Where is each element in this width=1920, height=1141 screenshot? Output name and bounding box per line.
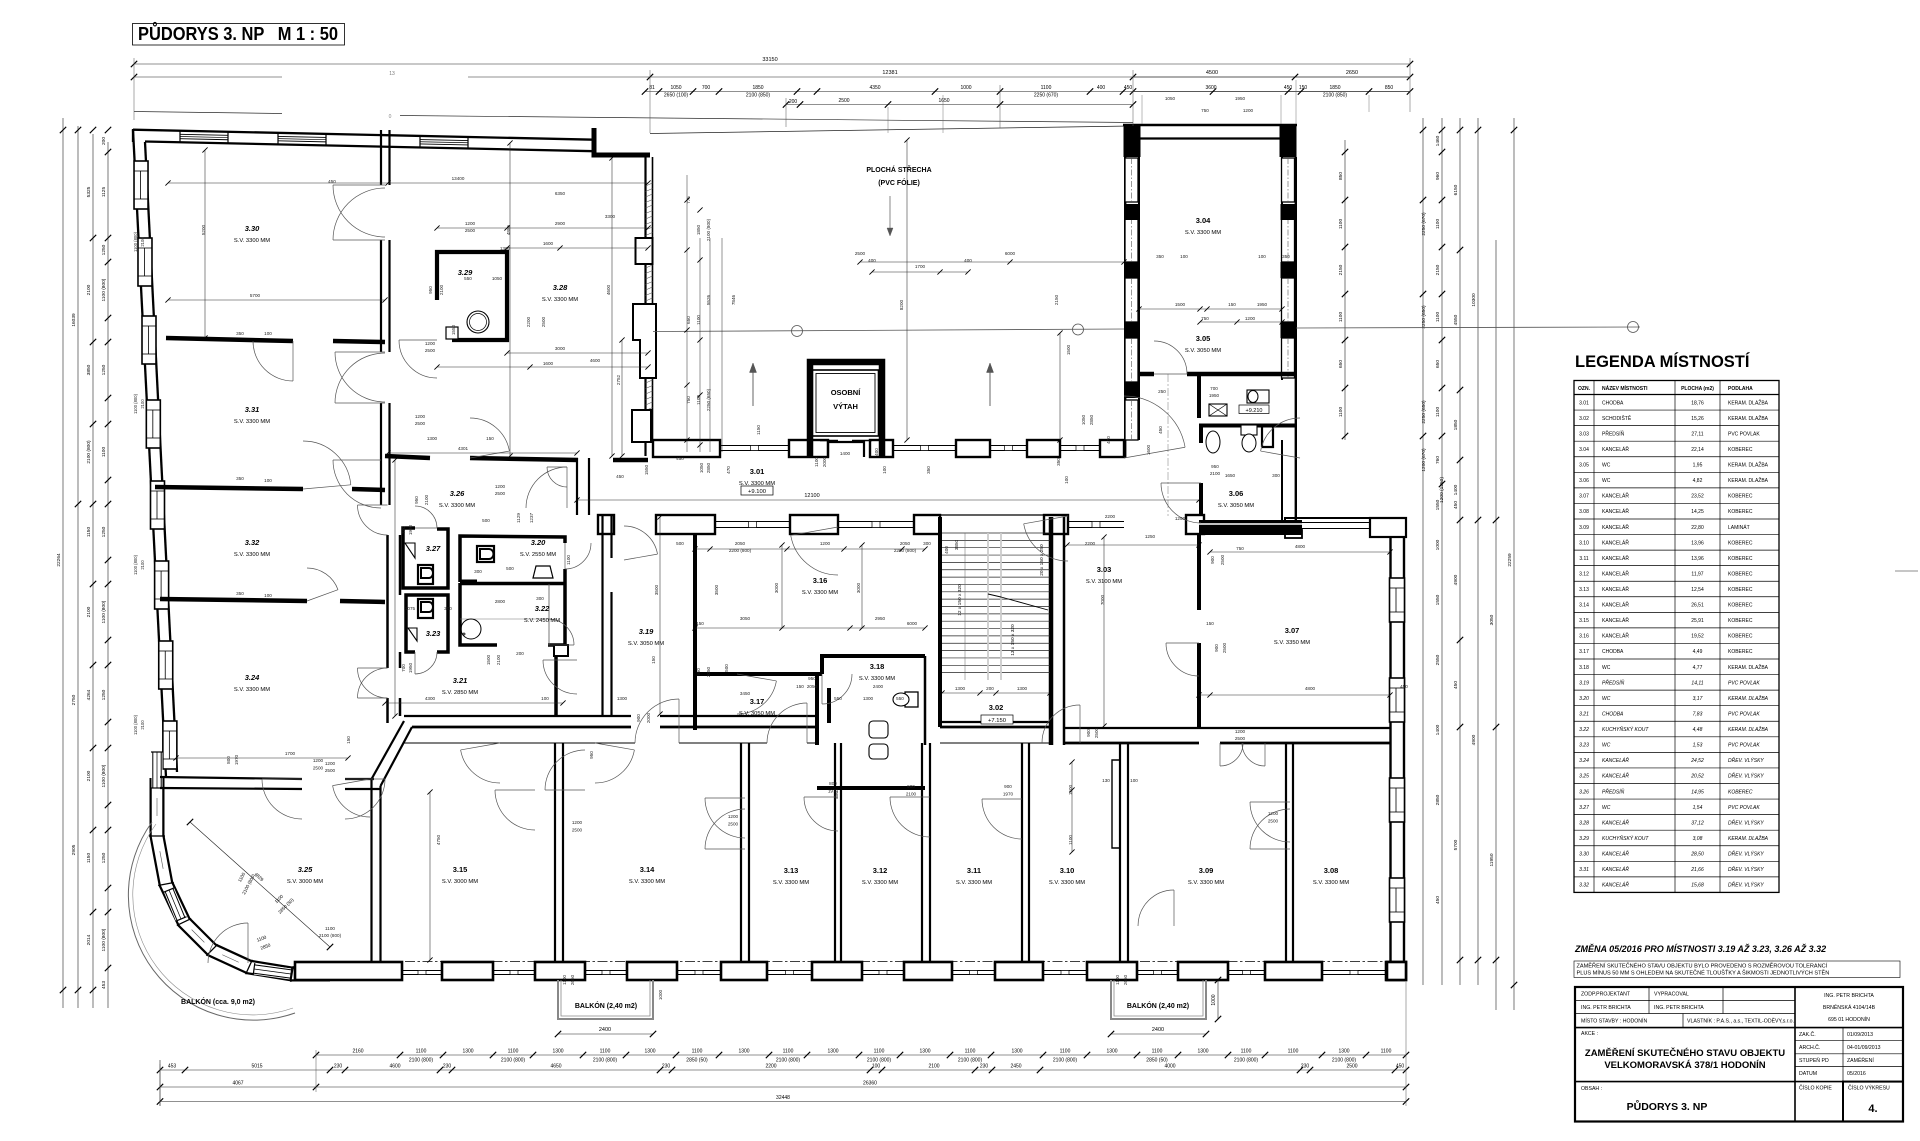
svg-text:150: 150: [486, 436, 494, 441]
svg-text:1100 (800): 1100 (800): [101, 600, 107, 623]
svg-text:1300: 1300: [863, 696, 874, 701]
svg-text:+9.210: +9.210: [1246, 408, 1263, 414]
svg-text:ČÍSLO KOPIE: ČÍSLO KOPIE: [1799, 1085, 1832, 1092]
vertical dim chain right of wing x=1345: [1344, 140, 1346, 440]
svg-text:33150: 33150: [762, 57, 777, 63]
svg-text:ZAMĚŘENÍ: ZAMĚŘENÍ: [1847, 1056, 1874, 1064]
svg-text:350: 350: [1156, 254, 1164, 259]
svg-text:KANCELÁŘ: KANCELÁŘ: [1602, 632, 1629, 640]
svg-text:3.18: 3.18: [870, 662, 885, 671]
elevator shaft OSOBNI VYTAH: [810, 362, 882, 457]
svg-text:3600: 3600: [1205, 85, 1216, 91]
svg-text:1250: 1250: [101, 364, 107, 375]
svg-text:1200: 1200: [1235, 729, 1246, 734]
svg-text:2200: 2200: [1105, 514, 1116, 519]
svg-text:850: 850: [1385, 85, 1394, 91]
fold mark line right edge: [1895, 570, 1918, 572]
svg-text:KOBEREC: KOBEREC: [1728, 556, 1753, 562]
roof edge double line over courtyard: [650, 126, 1130, 134]
svg-text:PVC POVLAK: PVC POVLAK: [1728, 711, 1760, 717]
svg-text:1100: 1100: [814, 457, 819, 467]
balcony doors from bottom rooms: [333, 786, 370, 817]
svg-text:1000: 1000: [1211, 994, 1217, 1005]
sink in 3.27 corner: [405, 543, 415, 558]
svg-text:4750: 4750: [436, 834, 441, 845]
svg-text:15,68: 15,68: [1691, 883, 1704, 889]
svg-text:3.20: 3.20: [1579, 696, 1589, 702]
svg-text:2100 (800): 2100 (800): [86, 440, 92, 464]
svg-text:2100: 2100: [496, 654, 501, 665]
svg-text:6150: 6150: [1453, 184, 1459, 195]
title block right info rows: [1795, 1040, 1903, 1042]
svg-text:1100: 1100: [416, 1049, 427, 1055]
svg-text:S.V. 3300 MM: S.V. 3300 MM: [234, 419, 270, 425]
svg-text:32448: 32448: [776, 1095, 790, 1101]
svg-text:1550: 1550: [1435, 499, 1441, 510]
svg-text:KOBEREC: KOBEREC: [1728, 587, 1753, 593]
stair direction line: [964, 533, 966, 680]
svg-text:ZODP.PROJEKTANT: ZODP.PROJEKTANT: [1581, 992, 1631, 998]
svg-text:550: 550: [464, 276, 472, 281]
svg-text:900: 900: [1004, 784, 1012, 789]
wall between 3.04 and 3.05: [1139, 372, 1154, 377]
dim lines courtyard roof: [860, 261, 1124, 263]
svg-text:1100: 1100: [508, 1049, 519, 1055]
svg-text:PVC POVLAK: PVC POVLAK: [1728, 743, 1760, 749]
dim vertical 5200 room 3.30: [204, 150, 206, 338]
door 3.16 entry from corridor: [791, 535, 838, 575]
svg-text:KOBEREC: KOBEREC: [1728, 571, 1753, 577]
svg-text:12100: 12100: [804, 493, 819, 499]
bay windows (glazing): [152, 752, 163, 788]
svg-text:500: 500: [724, 664, 729, 672]
svg-text:2200: 2200: [765, 1064, 776, 1070]
svg-text:3.02: 3.02: [989, 703, 1004, 712]
svg-text:4,82: 4,82: [1693, 478, 1703, 484]
svg-text:1100 (800): 1100 (800): [133, 393, 138, 414]
svg-text:BALKÓN (2,40 m2): BALKÓN (2,40 m2): [1127, 1001, 1189, 1010]
title block horizontal lines: [1575, 999, 1795, 1001]
svg-text:3.13: 3.13: [1579, 587, 1589, 593]
svg-text:0: 0: [389, 114, 392, 120]
door 3.30/3.31 spine lower: [335, 352, 385, 402]
svg-text:350: 350: [1056, 458, 1061, 466]
svg-text:5700: 5700: [250, 293, 261, 298]
svg-text:1300: 1300: [1338, 1049, 1349, 1055]
svg-text:400: 400: [944, 546, 949, 554]
dim lines room 3.16: [695, 548, 925, 550]
svg-text:2500: 2500: [465, 228, 476, 233]
svg-text:760: 760: [1435, 456, 1441, 464]
svg-text:2100 (850): 2100 (850): [1323, 93, 1348, 99]
door to 3.29 kitchen: [399, 340, 437, 378]
svg-text:3.11: 3.11: [1579, 556, 1589, 562]
svg-text:1200: 1200: [465, 221, 476, 226]
right wing left wall with windows: [1124, 157, 1126, 458]
svg-text:1950: 1950: [408, 662, 413, 673]
svg-text:400: 400: [874, 448, 879, 456]
svg-text:3.31: 3.31: [1579, 867, 1589, 873]
svg-text:18,76: 18,76: [1691, 400, 1704, 406]
svg-text:2100 (800): 2100 (800): [958, 1058, 983, 1064]
svg-text:950: 950: [589, 751, 594, 759]
svg-text:550: 550: [834, 696, 842, 701]
svg-text:1100: 1100: [692, 1049, 703, 1055]
svg-text:900: 900: [1214, 644, 1219, 652]
svg-text:KANCELÁŘ: KANCELÁŘ: [1602, 569, 1629, 577]
svg-text:1100: 1100: [325, 926, 335, 931]
svg-text:3.05: 3.05: [1196, 334, 1211, 343]
svg-text:2500: 2500: [572, 828, 583, 833]
svg-text:3.02: 3.02: [1579, 416, 1589, 422]
svg-text:1300: 1300: [1011, 1049, 1022, 1055]
svg-text:S.V. 3050 MM: S.V. 3050 MM: [628, 641, 664, 647]
boiler circle in 3.22: [461, 619, 481, 639]
svg-text:DŘEV. VLÝSKY: DŘEV. VLÝSKY: [1728, 865, 1764, 873]
outer slanted left wall (hollow): [133, 130, 166, 777]
svg-text:350: 350: [236, 476, 244, 481]
svg-text:KERAM. DLAŽBA: KERAM. DLAŽBA: [1728, 461, 1769, 469]
svg-text:ING. PETR BRICHTA: ING. PETR BRICHTA: [1654, 1005, 1704, 1011]
svg-text:1100: 1100: [1060, 1049, 1071, 1055]
svg-text:S.V. 2550 MM: S.V. 2550 MM: [520, 552, 556, 558]
svg-text:100: 100: [264, 478, 272, 483]
dim verticals courtyard: [906, 140, 908, 440]
svg-text:S.V. 3300 MM: S.V. 3300 MM: [439, 503, 475, 509]
svg-text:3.07: 3.07: [1579, 494, 1589, 500]
svg-text:4264: 4264: [86, 689, 92, 700]
svg-text:850: 850: [1338, 172, 1344, 180]
level mark 3.05 +9.210: [1239, 405, 1269, 414]
corridor 3.01 top wall with windows to courtyard: [653, 440, 720, 457]
svg-text:2100: 2100: [439, 284, 444, 295]
svg-text:1400: 1400: [1453, 484, 1459, 495]
svg-text:3.28: 3.28: [553, 283, 568, 292]
svg-text:3.12: 3.12: [1579, 571, 1589, 577]
svg-text:230: 230: [980, 1064, 989, 1070]
svg-text:KERAM. DLAŽBA: KERAM. DLAŽBA: [1728, 476, 1769, 484]
svg-text:+7.150: +7.150: [988, 718, 1006, 724]
svg-text:230: 230: [443, 1064, 452, 1070]
svg-text:2500: 2500: [1094, 727, 1099, 738]
svg-text:2050: 2050: [807, 684, 818, 689]
svg-text:1850: 1850: [1329, 85, 1340, 91]
svg-text:3500: 3500: [714, 584, 719, 595]
right outer wall lower part: [1389, 537, 1391, 962]
courtyard wall hatch channels: [646, 183, 653, 186]
svg-text:3.25: 3.25: [1579, 774, 1589, 780]
svg-text:AKCE :: AKCE :: [1581, 1031, 1598, 1037]
svg-text:500: 500: [482, 518, 490, 523]
svg-text:KANCELÁŘ: KANCELÁŘ: [1602, 772, 1629, 780]
svg-text:900: 900: [1210, 556, 1215, 564]
svg-text:100: 100: [1258, 254, 1266, 259]
legend table column lines: [1593, 381, 1595, 893]
svg-text:3.28: 3.28: [1579, 820, 1589, 826]
gutter line on flat roof with drains: [653, 329, 1124, 332]
svg-text:950: 950: [414, 496, 419, 504]
svg-text:2450: 2450: [1010, 1064, 1021, 1070]
svg-text:2800: 2800: [495, 599, 506, 604]
door in wall 3.30/3.31: [253, 341, 293, 381]
svg-text:2500: 2500: [1268, 819, 1279, 824]
svg-text:150: 150: [1299, 85, 1308, 91]
stairwell right wall: [1049, 517, 1054, 745]
partition 3.09/3.08: [1285, 743, 1287, 962]
room 3.29 kitchen box walls: [437, 252, 507, 340]
door 3.21 to 3.19: [543, 660, 577, 694]
svg-text:100: 100: [264, 593, 272, 598]
svg-text:13,96: 13,96: [1691, 540, 1704, 546]
svg-text:300: 300: [474, 569, 482, 574]
svg-text:5325: 5325: [86, 186, 92, 197]
svg-text:12 x 150 x 320: 12 x 150 x 320: [957, 584, 963, 616]
svg-text:450: 450: [676, 456, 684, 461]
dim verticals bottom rooms: [1071, 762, 1073, 852]
svg-text:1100: 1100: [1435, 407, 1441, 418]
dim lines room 3.28 bottom: [507, 352, 648, 354]
svg-text:2100: 2100: [86, 770, 92, 781]
svg-text:1600: 1600: [1146, 444, 1151, 455]
svg-text:3850: 3850: [954, 539, 959, 550]
door 3.21 to 3.24 through spine: [358, 668, 388, 698]
svg-text:1200: 1200: [415, 414, 426, 419]
svg-text:S.V. 3300 MM: S.V. 3300 MM: [773, 880, 809, 886]
svg-text:3.20: 3.20: [531, 538, 546, 547]
svg-text:100: 100: [264, 331, 272, 336]
svg-text:CHODBA: CHODBA: [1602, 711, 1624, 717]
corridor wall door gaps near stairs: [940, 514, 1044, 516]
svg-text:3.09: 3.09: [1579, 525, 1589, 531]
svg-text:4,77: 4,77: [1693, 665, 1703, 671]
bottom outer wall of building: [300, 961, 1406, 963]
svg-text:S.V. 3300 MM: S.V. 3300 MM: [234, 552, 270, 558]
svg-text:1100: 1100: [566, 555, 571, 565]
svg-text:S.V. 3300 MM: S.V. 3300 MM: [629, 879, 665, 885]
svg-text:800: 800: [226, 756, 231, 764]
svg-text:1300: 1300: [738, 1049, 749, 1055]
svg-text:300: 300: [444, 606, 452, 611]
svg-text:ARCH.Č.: ARCH.Č.: [1799, 1044, 1820, 1051]
svg-text:500: 500: [506, 566, 514, 571]
partition 3.12/3.11: [921, 743, 923, 962]
svg-text:3.24: 3.24: [245, 673, 260, 682]
svg-text:23,52: 23,52: [1691, 494, 1704, 500]
svg-text:19,52: 19,52: [1691, 634, 1704, 640]
svg-text:3.22: 3.22: [535, 604, 550, 613]
svg-text:3.17: 3.17: [750, 697, 765, 706]
svg-text:1970: 1970: [234, 754, 239, 765]
svg-text:3450: 3450: [740, 691, 751, 696]
spine wall x=385 between left rooms and center: [380, 130, 382, 185]
sink in 3.20: [533, 566, 553, 578]
svg-text:150: 150: [1228, 302, 1236, 307]
svg-text:2150: 2150: [1338, 264, 1344, 275]
svg-text:LAMINÁT: LAMINÁT: [1728, 524, 1750, 531]
svg-text:KANCELÁŘ: KANCELÁŘ: [1602, 445, 1629, 453]
svg-text:950: 950: [808, 676, 816, 681]
svg-text:ZAMĚŘENÍ SKUTEČNÉHO STAVU OBJE: ZAMĚŘENÍ SKUTEČNÉHO STAVU OBJEKTU BYLO P…: [1577, 962, 1828, 970]
svg-text:453: 453: [168, 1064, 177, 1070]
svg-text:2850 (50): 2850 (50): [686, 1058, 708, 1064]
balcony below 3.09 (2.40 m2): [1111, 980, 1206, 1019]
svg-text:3.01: 3.01: [1579, 400, 1589, 406]
svg-text:450: 450: [1453, 681, 1459, 689]
svg-text:2100: 2100: [906, 792, 917, 797]
svg-text:3.21: 3.21: [453, 676, 468, 685]
svg-text:2000: 2000: [646, 712, 651, 723]
svg-text:1600: 1600: [543, 361, 554, 366]
wall between 3.19 and 3.16/3.17: [693, 534, 697, 560]
balcony right dim 1000 vertical: [1217, 980, 1219, 1019]
svg-text:S.V. 3300 MM: S.V. 3300 MM: [1188, 880, 1224, 886]
svg-text:1200 (670): 1200 (670): [1421, 448, 1427, 472]
svg-text:4550: 4550: [1453, 314, 1459, 325]
door 3.26 to 3.32 through spine: [358, 505, 388, 535]
svg-text:2500: 2500: [325, 768, 336, 773]
svg-text:KUCHYŇSKÝ KOUT: KUCHYŇSKÝ KOUT: [1602, 726, 1649, 733]
svg-text:1000: 1000: [658, 989, 663, 1000]
svg-text:4301: 4301: [458, 446, 469, 451]
svg-text:2650 (100): 2650 (100): [664, 93, 689, 99]
svg-text:1100: 1100: [1338, 407, 1344, 418]
dim line 12100 corridor: [577, 499, 1199, 501]
svg-text:STUPEŇ PD: STUPEŇ PD: [1799, 1057, 1829, 1064]
svg-text:1075: 1075: [405, 606, 416, 611]
wall left of 3.19: [601, 515, 603, 716]
svg-text:2100: 2100: [140, 560, 145, 570]
svg-text:3.19: 3.19: [639, 627, 654, 636]
svg-text:3.04: 3.04: [1196, 216, 1211, 225]
svg-text:1300: 1300: [919, 1049, 930, 1055]
svg-text:KOBEREC: KOBEREC: [1728, 789, 1753, 795]
svg-text:1125: 1125: [101, 187, 107, 198]
svg-text:1100: 1100: [965, 1049, 976, 1055]
svg-text:1100 (800): 1100 (800): [133, 231, 138, 252]
svg-text:WC: WC: [1602, 805, 1611, 811]
door 3.17 to 3.13 band: [767, 703, 807, 743]
svg-text:21,66: 21,66: [1690, 867, 1704, 873]
dim line 4301 room 3.26: [388, 452, 577, 454]
svg-text:1200: 1200: [728, 814, 739, 819]
svg-text:05/2016: 05/2016: [1847, 1071, 1866, 1077]
door in wall 3.31/3.32: [303, 441, 351, 485]
svg-text:200: 200: [516, 651, 524, 656]
svg-text:3.16: 3.16: [813, 576, 828, 585]
top dimension chain 12381: [134, 76, 282, 78]
svg-text:S.V. 3050 MM: S.V. 3050 MM: [1218, 503, 1254, 509]
room 3.20/3.22 wall: [460, 582, 565, 586]
extension verticals top dims wing: [1141, 95, 1143, 124]
dim line 1700 room 3.24: [176, 757, 348, 759]
top dimension chain 4500/2650 over right wing: [1133, 76, 1410, 78]
svg-text:1150: 1150: [756, 425, 761, 435]
svg-text:2900: 2900: [555, 221, 566, 226]
svg-text:3.06: 3.06: [1229, 489, 1244, 498]
dim line room 3.03: [1067, 544, 1199, 546]
svg-text:1250: 1250: [101, 852, 107, 863]
svg-text:MÍSTO STAVBY : HODONÍN: MÍSTO STAVBY : HODONÍN: [1581, 1018, 1647, 1025]
svg-text:SCHODIŠTĚ: SCHODIŠTĚ: [1602, 414, 1632, 422]
svg-text:3.27: 3.27: [1579, 805, 1589, 811]
balcony right dim 2400: [1111, 1033, 1206, 1035]
svg-text:200: 200: [789, 99, 798, 105]
svg-text:KANCELÁŘ: KANCELÁŘ: [1602, 601, 1629, 609]
svg-text:1950: 1950: [408, 524, 413, 535]
svg-text:3.13: 3.13: [784, 866, 799, 875]
svg-text:1250: 1250: [101, 526, 107, 537]
svg-text:453: 453: [101, 981, 107, 989]
svg-text:750: 750: [1201, 108, 1209, 113]
svg-text:OZN.: OZN.: [1578, 386, 1591, 392]
svg-text:KOBEREC: KOBEREC: [1728, 634, 1753, 640]
svg-text:2100 (800): 2100 (800): [501, 1058, 526, 1064]
svg-text:13,96: 13,96: [1691, 556, 1704, 562]
door 3.23 entry: [415, 652, 437, 674]
svg-text:450: 450: [616, 474, 624, 479]
dim lines room 3.07: [1210, 551, 1390, 553]
toilet in 3.27: [418, 565, 433, 584]
svg-text:3.08: 3.08: [1579, 509, 1589, 515]
svg-text:3050: 3050: [1489, 614, 1495, 625]
svg-text:350: 350: [926, 466, 931, 474]
svg-text:3.29: 3.29: [1579, 836, 1589, 842]
svg-text:2850: 2850: [706, 462, 711, 473]
svg-text:CHODBA: CHODBA: [1602, 649, 1624, 655]
doors in wall below 3.24 to 3.25: [262, 779, 302, 819]
svg-text:S.V. 3300 MM: S.V. 3300 MM: [1313, 880, 1349, 886]
svg-text:S.V. 2850 MM: S.V. 2850 MM: [442, 690, 478, 696]
svg-text:150: 150: [651, 656, 656, 664]
svg-text:PŘEDSÍŇ: PŘEDSÍŇ: [1602, 429, 1625, 437]
svg-text:BALKÓN (2,40 m2): BALKÓN (2,40 m2): [575, 1001, 637, 1010]
svg-text:3.04: 3.04: [1579, 447, 1589, 453]
svg-text:14,11: 14,11: [1691, 680, 1703, 686]
svg-text:1100 (800): 1100 (800): [101, 928, 107, 951]
axis dash line 3.05-3.06: [1167, 374, 1169, 516]
svg-text:3.01: 3.01: [750, 467, 765, 476]
svg-text:S.V. 3300 MM: S.V. 3300 MM: [1049, 880, 1085, 886]
svg-text:1550: 1550: [644, 464, 649, 475]
sink in 3.06: [1206, 431, 1220, 453]
svg-text:1400: 1400: [840, 451, 851, 456]
svg-text:6000: 6000: [907, 621, 918, 626]
wall below 3.24 (top of 3.25): [160, 777, 302, 779]
svg-text:4300: 4300: [425, 696, 436, 701]
svg-text:27,11: 27,11: [1691, 431, 1703, 437]
door 3.18 entry: [822, 674, 852, 704]
svg-text:WC: WC: [1602, 478, 1611, 484]
walls under stair area to bottom rooms: [940, 742, 1052, 744]
svg-text:550: 550: [896, 696, 904, 701]
svg-text:3000: 3000: [774, 582, 779, 593]
svg-text:DŘEV. VLÝSKY: DŘEV. VLÝSKY: [1728, 881, 1764, 889]
svg-text:2014: 2014: [86, 934, 92, 945]
svg-text:3.07: 3.07: [1285, 626, 1300, 635]
svg-text:KANCELÁŘ: KANCELÁŘ: [1602, 850, 1629, 858]
cluster right wall lower part: [554, 656, 558, 716]
svg-text:400: 400: [1097, 85, 1106, 91]
svg-text:100: 100: [882, 466, 887, 474]
svg-text:ZAK.Č.: ZAK.Č.: [1799, 1031, 1816, 1038]
svg-text:26,51: 26,51: [1691, 603, 1704, 609]
3.29 fixtures sink circle: [467, 311, 489, 333]
svg-text:PLUS MÍNUS 50 MM S OHLEDEM NA: PLUS MÍNUS 50 MM S OHLEDEM NA SKUTEČNÉ T…: [1577, 969, 1830, 977]
svg-text:2400: 2400: [599, 1027, 611, 1033]
svg-text:3.03: 3.03: [1579, 431, 1589, 437]
svg-text:2500: 2500: [1235, 736, 1246, 741]
extension verticals top dims: [133, 58, 135, 120]
